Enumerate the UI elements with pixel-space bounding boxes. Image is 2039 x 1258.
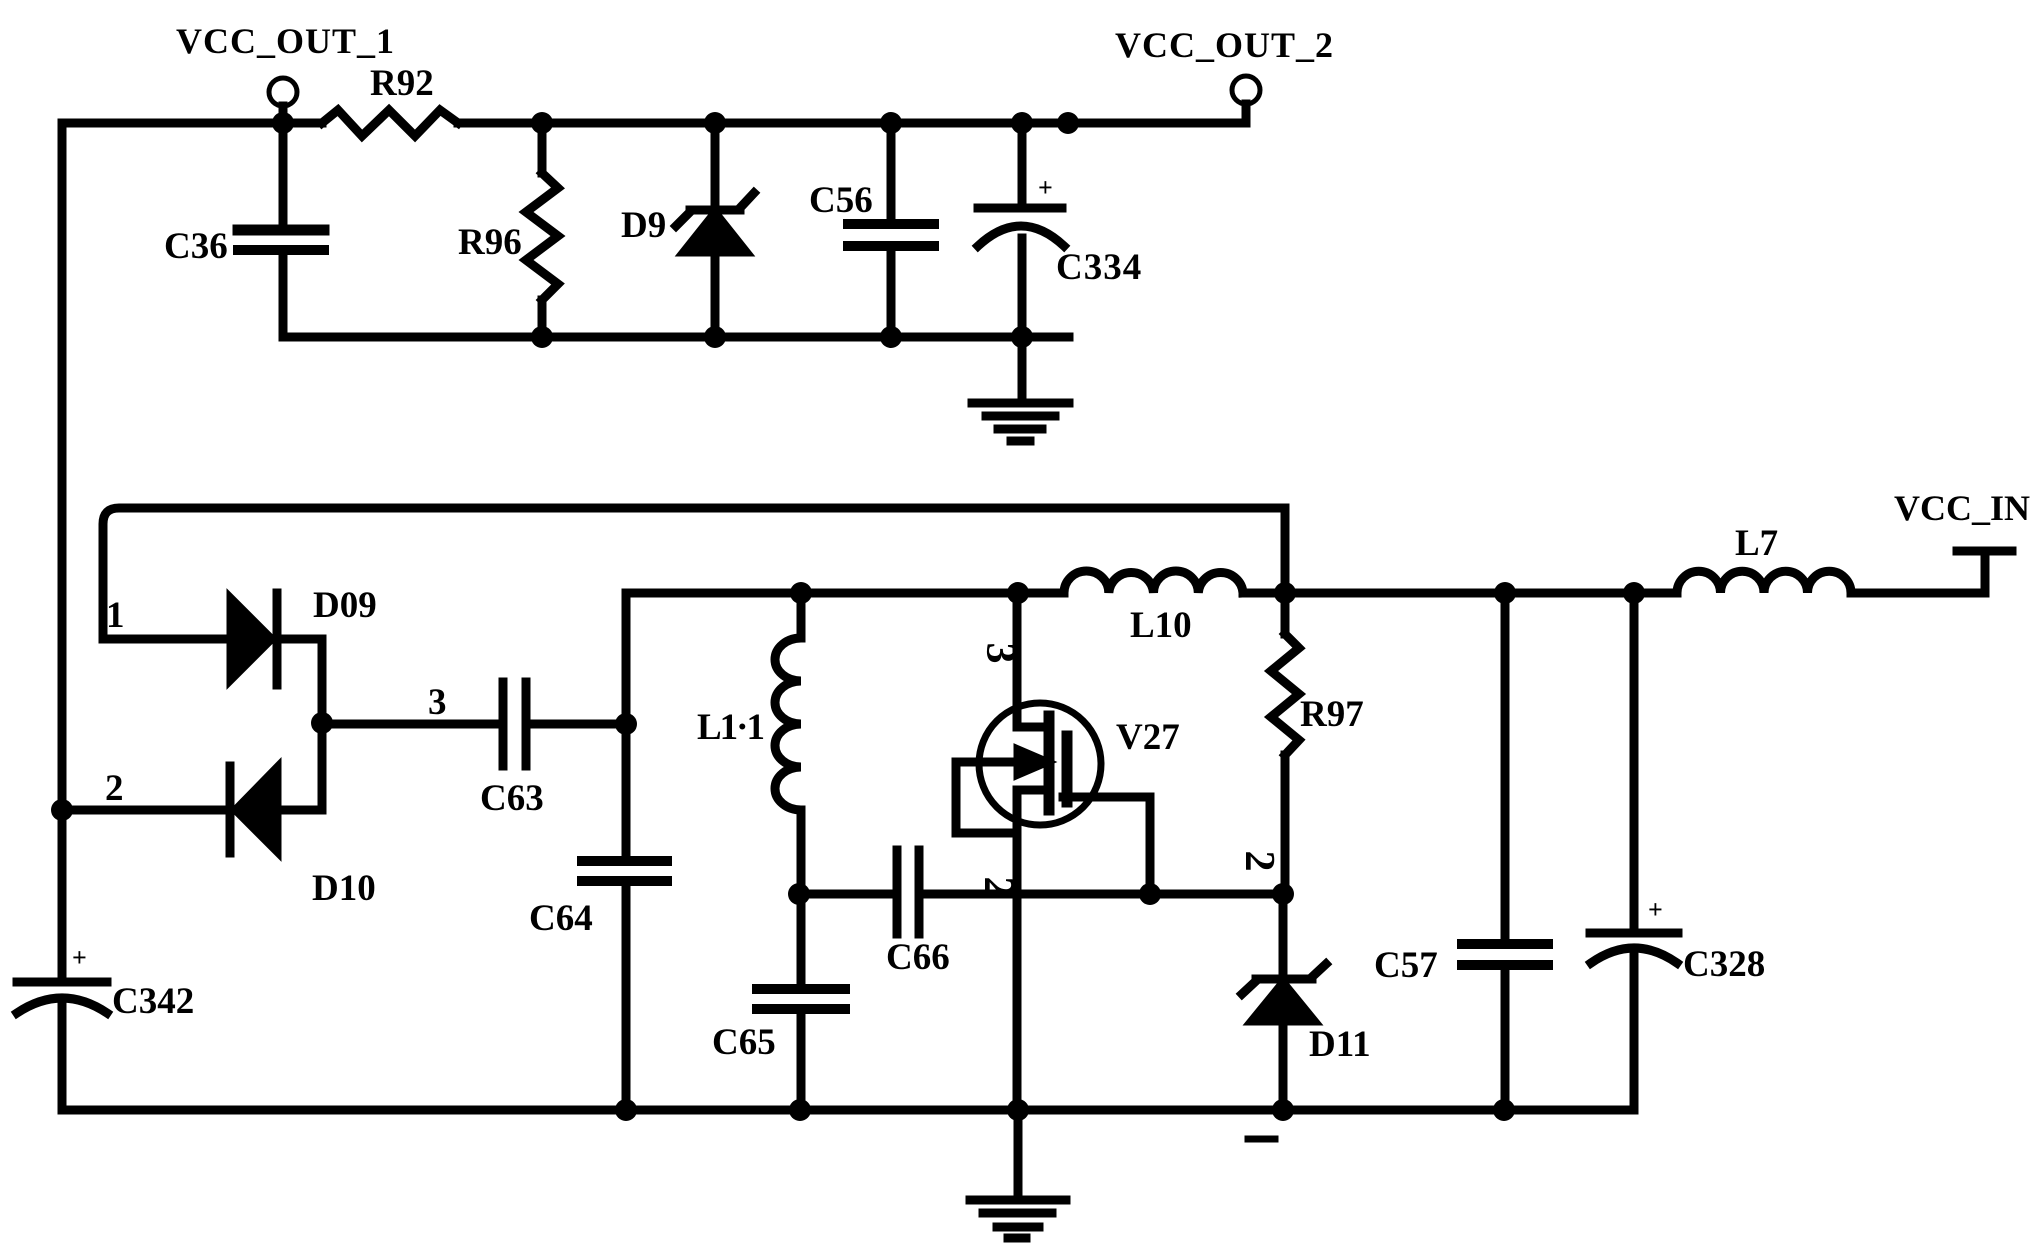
diode D10 xyxy=(230,723,322,853)
polarized capacitor C334 xyxy=(978,123,1064,337)
svg-text:R96: R96 xyxy=(458,222,522,263)
zener diode D9 xyxy=(676,123,754,337)
svg-text:D10: D10 xyxy=(312,868,376,909)
junction dots on mid rail xyxy=(790,582,1645,604)
svg-text:C36: C36 xyxy=(164,226,228,267)
zener diode D11 xyxy=(1242,894,1326,1110)
wire: top rail from left corner to VCC_OUT_2 riser xyxy=(62,119,1244,128)
ground (bottom section) xyxy=(970,1110,1066,1238)
inductor L7 xyxy=(1677,571,1851,593)
inductor L10 xyxy=(1064,571,1243,593)
svg-text:2: 2 xyxy=(1236,851,1282,872)
svg-text:VCC_OUT_2: VCC_OUT_2 xyxy=(1115,25,1334,65)
svg-text:L1·1: L1·1 xyxy=(697,707,764,748)
svg-text:V27: V27 xyxy=(1116,717,1180,758)
svg-text:C63: C63 xyxy=(480,778,544,819)
svg-text:C57: C57 xyxy=(1374,945,1438,986)
mosfet V27 xyxy=(956,593,1150,1110)
wire: node 2 run to D10 xyxy=(62,806,230,815)
polarized capacitor C342 xyxy=(17,982,107,1110)
svg-text:+: + xyxy=(1648,895,1663,924)
svg-text:C64: C64 xyxy=(529,898,593,939)
svg-text:3: 3 xyxy=(977,643,1023,664)
resistor R92 xyxy=(322,110,458,136)
wire: left main vertical (top rail down to bottom rail, interrupted by C342) xyxy=(58,123,67,977)
capacitor C65 xyxy=(757,894,845,1110)
terminal VCC_OUT_1 xyxy=(269,78,297,123)
diode D09 xyxy=(231,593,322,723)
svg-text:D9: D9 xyxy=(621,205,666,246)
svg-text:+: + xyxy=(72,943,87,972)
svg-text:1: 1 xyxy=(106,595,125,636)
terminal VCC_OUT_2 xyxy=(1232,76,1260,123)
capacitor C36 xyxy=(238,123,324,337)
resistor R96 xyxy=(526,123,558,337)
capacitor C63 xyxy=(503,682,626,766)
svg-text:R92: R92 xyxy=(370,63,434,104)
svg-text:C334: C334 xyxy=(1056,247,1142,288)
node A junction dots (D09/D10 node and C63 right node) xyxy=(51,712,637,821)
wire: bottom rail xyxy=(62,1106,1634,1115)
svg-text:2: 2 xyxy=(105,768,124,809)
resistor R97 xyxy=(1271,593,1299,894)
svg-text:L10: L10 xyxy=(1130,605,1192,646)
svg-text:3: 3 xyxy=(428,682,447,723)
junction dots on top rail xyxy=(272,112,1079,134)
svg-text:C328: C328 xyxy=(1683,944,1765,985)
junction dots on lower rail of top section xyxy=(531,326,1033,348)
svg-text:D11: D11 xyxy=(1309,1024,1371,1065)
junction dots on gate/source row xyxy=(788,883,1294,905)
svg-text:D09: D09 xyxy=(313,585,377,626)
svg-text:R97: R97 xyxy=(1300,694,1364,735)
svg-text:VCC_OUT_1: VCC_OUT_1 xyxy=(176,21,395,61)
wire: mid rail of bottom section xyxy=(626,589,1985,598)
wire: gate/source row with C66 xyxy=(801,890,1285,899)
ground (top section) xyxy=(972,337,1069,441)
wire: node 1 run to D09 xyxy=(103,635,231,644)
svg-text:C65: C65 xyxy=(712,1022,776,1063)
svg-text:VCC_IN: VCC_IN xyxy=(1894,488,2030,528)
capacitor C64 xyxy=(582,593,667,1110)
svg-text:+: + xyxy=(1038,173,1053,202)
svg-text:C342: C342 xyxy=(112,981,194,1022)
junction dots on bottom rail xyxy=(615,1099,1515,1121)
minus mark below bottom rail xyxy=(1248,1136,1275,1143)
polarized capacitor C328 xyxy=(1590,593,1678,1110)
svg-text:2: 2 xyxy=(975,877,1021,898)
wire: inner feedback loop (left riser, top run, right riser) xyxy=(103,508,1285,639)
inductor L11 xyxy=(775,593,801,894)
wire: lower rail of top section xyxy=(283,333,1069,342)
capacitor C57 xyxy=(1462,593,1548,1110)
svg-text:C66: C66 xyxy=(886,937,950,978)
svg-text:L7: L7 xyxy=(1735,523,1778,564)
capacitor C56 xyxy=(848,123,934,337)
wire: node 3 run to C63 xyxy=(322,720,500,729)
svg-text:C56: C56 xyxy=(809,180,873,221)
capacitor C66 xyxy=(897,850,919,934)
terminal VCC_IN xyxy=(1957,551,2012,593)
